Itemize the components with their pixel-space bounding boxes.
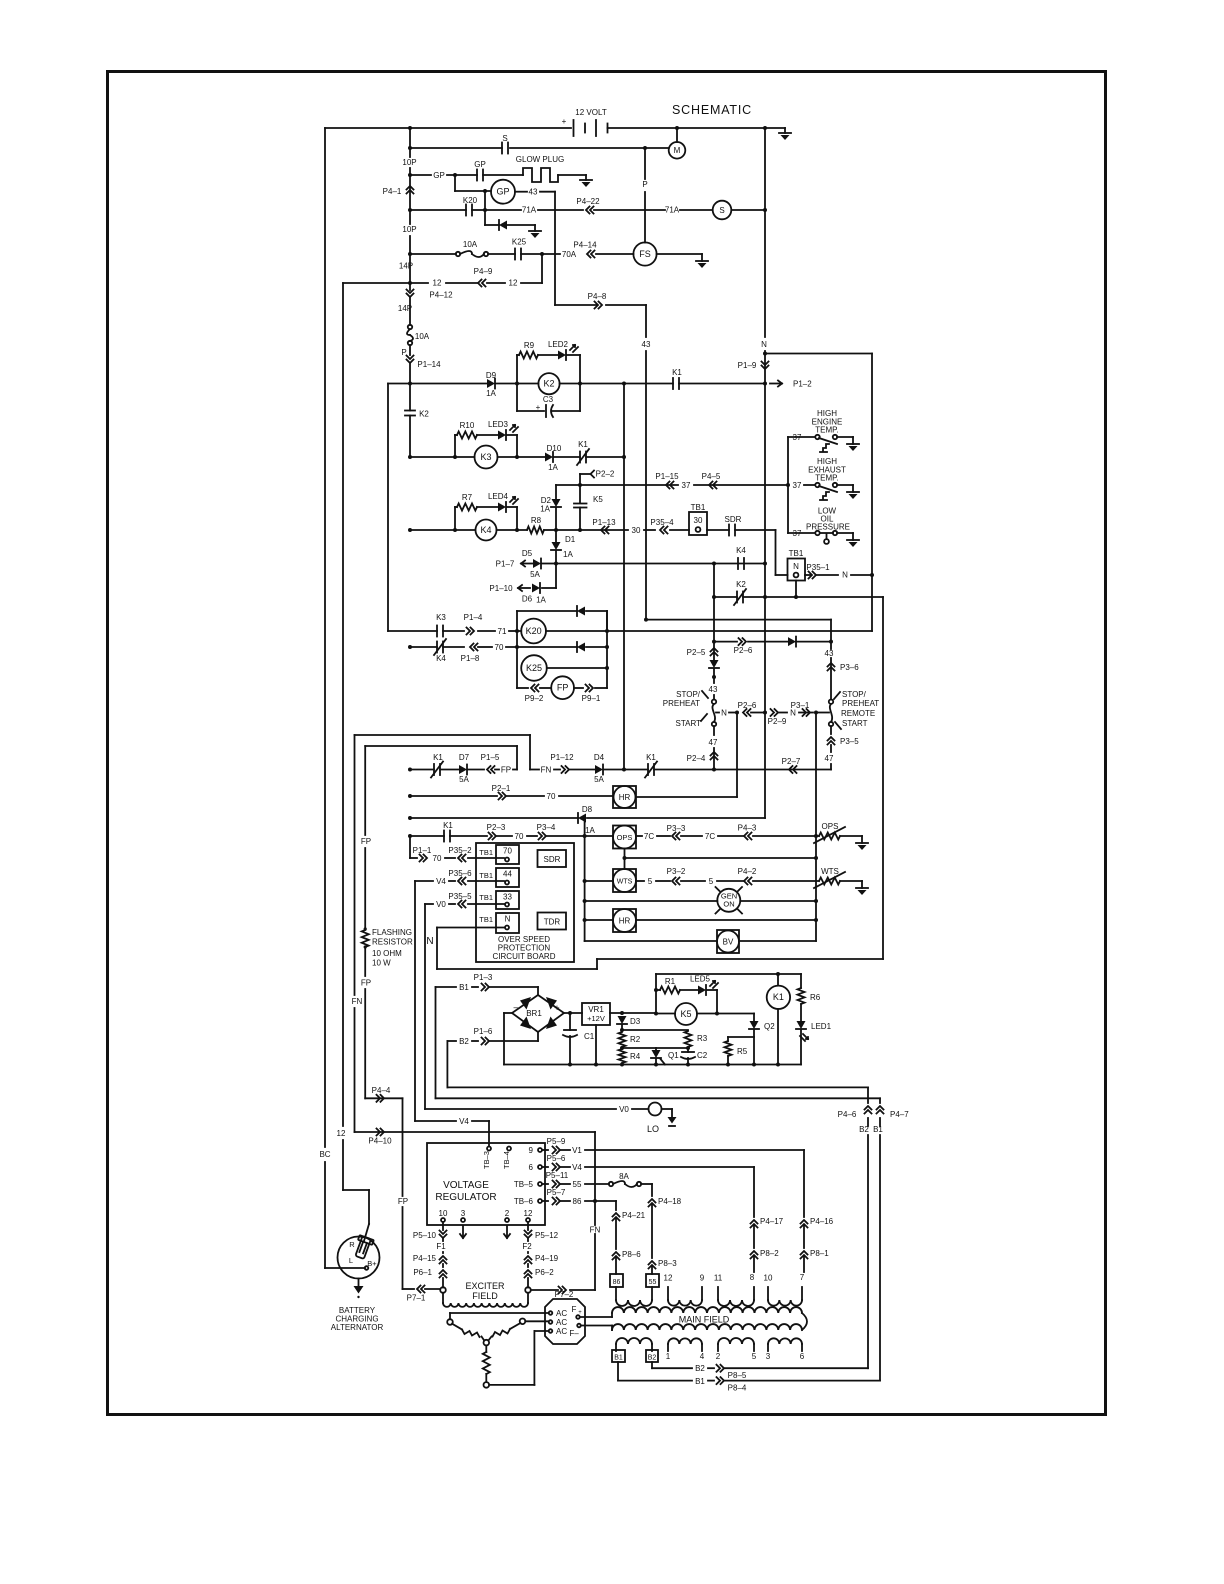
wire row70 d bbox=[506, 646, 577, 648]
svg-text:D6: D6 bbox=[522, 595, 533, 604]
svg-text:SCHEMATIC: SCHEMATIC bbox=[672, 103, 752, 117]
coil main bottom 1 bbox=[616, 1338, 652, 1344]
wire B1 long row bbox=[436, 1097, 881, 1099]
junction row485 k5 bbox=[578, 483, 582, 487]
wire K20 loop right bbox=[606, 611, 608, 631]
svg-text:P35–6: P35–6 bbox=[448, 869, 472, 878]
wire FP elbow bbox=[365, 1097, 402, 1099]
svg-text:FS: FS bbox=[639, 249, 651, 259]
svg-text:K4: K4 bbox=[436, 654, 446, 663]
rays LED4 bbox=[510, 497, 515, 502]
svg-text:+: + bbox=[554, 1003, 559, 1013]
svg-text:RESISTOR: RESISTOR bbox=[372, 938, 413, 947]
svg-text:10 OHM: 10 OHM bbox=[372, 949, 402, 958]
arrow P1-7 bbox=[521, 563, 533, 565]
wire N row2 c bbox=[779, 712, 787, 714]
tick stop right bbox=[834, 692, 840, 699]
lamp LO bbox=[649, 1103, 662, 1116]
svg-text:Q2: Q2 bbox=[764, 1022, 775, 1031]
svg-text:P4–21: P4–21 bbox=[622, 1211, 646, 1220]
svg-text:3: 3 bbox=[766, 1352, 771, 1361]
svg-text:P4–3: P4–3 bbox=[738, 824, 757, 833]
arrow P1-3 bbox=[482, 984, 490, 991]
diode D1 bbox=[552, 542, 561, 550]
wire row959 bbox=[597, 958, 883, 960]
arrow P7-1 bbox=[417, 1286, 425, 1293]
svg-text:2: 2 bbox=[716, 1352, 721, 1361]
svg-text:5A: 5A bbox=[459, 775, 469, 784]
junction C2 bot bbox=[686, 1063, 690, 1067]
relay K3 bbox=[475, 446, 498, 469]
wire row901 b bbox=[740, 900, 816, 902]
svg-text:P6–2: P6–2 bbox=[535, 1268, 554, 1277]
chevrons P8-6 bbox=[613, 1252, 620, 1260]
wire FN rail bbox=[354, 735, 356, 995]
svg-text:TB1: TB1 bbox=[691, 503, 706, 512]
wire D2 vert bbox=[555, 485, 557, 499]
wire 12 row bbox=[343, 282, 428, 284]
svg-text:P1–1: P1–1 bbox=[413, 846, 432, 855]
wire main top stub R3 bbox=[753, 1287, 755, 1300]
svg-text:N: N bbox=[793, 562, 799, 571]
wire P4-10 row bbox=[355, 1131, 596, 1133]
svg-text:K2: K2 bbox=[736, 580, 746, 589]
wire x714 vert c bbox=[713, 695, 715, 700]
svg-text:P4–6: P4–6 bbox=[838, 1110, 857, 1119]
wire V4 row b bbox=[472, 1120, 489, 1122]
svg-text:9: 9 bbox=[529, 1146, 534, 1155]
chevrons P4-6 bbox=[865, 1106, 872, 1114]
svg-text:70: 70 bbox=[503, 847, 512, 856]
wire row769 fp a bbox=[410, 769, 434, 771]
svg-text:+: + bbox=[562, 117, 567, 126]
wire bus seg2 bbox=[409, 168, 411, 210]
wire BC to Bplus bbox=[325, 1267, 365, 1269]
wire D1 vert b bbox=[555, 551, 557, 564]
svg-text:P5–6: P5–6 bbox=[547, 1154, 566, 1163]
wire row485 a bbox=[556, 484, 580, 486]
wire row641 a bbox=[714, 641, 737, 643]
wire 55 row c bbox=[585, 1183, 609, 1185]
ground glow plug bbox=[585, 175, 587, 180]
junction K3 loop left bbox=[453, 455, 457, 459]
wire 43 vertical upper bbox=[554, 192, 556, 305]
wire row901 a bbox=[585, 900, 718, 902]
arrow P1-5 bbox=[487, 766, 495, 773]
tick start right bbox=[835, 722, 841, 729]
arrow P9-2 bbox=[531, 685, 539, 692]
wire V1 row b bbox=[561, 1149, 570, 1151]
wire P2-2 stub bbox=[580, 473, 590, 475]
arrow P2-2 bbox=[591, 471, 595, 478]
junction right rail top bbox=[763, 126, 767, 130]
winding delta mid bbox=[485, 1345, 487, 1352]
junction bus top bbox=[408, 126, 412, 130]
wire row71 b bbox=[443, 630, 464, 632]
svg-text:4: 4 bbox=[700, 1352, 705, 1361]
svg-text:5A: 5A bbox=[594, 775, 604, 784]
junction row597 stub bbox=[794, 595, 798, 599]
svg-text:V0: V0 bbox=[619, 1105, 629, 1114]
svg-text:STOP/: STOP/ bbox=[842, 690, 867, 699]
wire P vertical b bbox=[644, 192, 646, 243]
chevrons P5-11 bbox=[553, 1181, 561, 1188]
wire F1 b bbox=[442, 1252, 444, 1253]
contact K4 row647 bbox=[436, 642, 438, 653]
wire V1 rail bbox=[803, 1150, 805, 1217]
arrow P35-4 bbox=[660, 527, 668, 534]
svg-text:R8: R8 bbox=[531, 516, 542, 525]
pin delta L bbox=[447, 1319, 453, 1325]
svg-text:P4–4: P4–4 bbox=[372, 1086, 391, 1095]
capacitor C3 bbox=[545, 405, 547, 417]
coil main bottom 3 bbox=[718, 1338, 754, 1344]
chevrons P5-7 bbox=[553, 1198, 561, 1205]
wire battery row left bbox=[325, 127, 571, 129]
wire B2 row c bbox=[490, 1040, 538, 1042]
wire main bot stub R3 bbox=[753, 1344, 755, 1351]
svg-text:–: – bbox=[513, 1002, 518, 1012]
relay K1 circle bbox=[767, 986, 790, 1009]
junction row384 bus bbox=[408, 382, 412, 386]
resistor R4 bbox=[619, 1049, 626, 1063]
diode LED1 bbox=[797, 1021, 806, 1029]
wire FN drop bbox=[529, 735, 531, 770]
svg-text:SDR: SDR bbox=[725, 515, 742, 524]
wire row769 fp b bbox=[440, 769, 459, 771]
junction row920 left bbox=[583, 918, 587, 922]
wire K3 loop left vert bbox=[454, 435, 456, 457]
junction row836 d8 bbox=[583, 834, 587, 838]
chevrons P2-5 bbox=[711, 648, 718, 656]
junction rail1064 c1 bbox=[568, 1063, 572, 1067]
wire row384 e bbox=[679, 383, 765, 385]
arrow P8-5 bbox=[717, 1365, 725, 1372]
wire 70A row a bbox=[410, 253, 456, 255]
pin TB-3 bbox=[487, 1147, 491, 1151]
junction LED5 drop bbox=[715, 1012, 719, 1016]
svg-text:P9–1: P9–1 bbox=[582, 694, 601, 703]
wire R6 top bbox=[800, 974, 802, 988]
junction S row bbox=[408, 146, 412, 150]
wire K4 loop left vert bbox=[454, 507, 456, 530]
svg-text:P8–4: P8–4 bbox=[728, 1384, 747, 1393]
wire main top stub L3 bbox=[717, 1287, 719, 1300]
svg-text:P4–2: P4–2 bbox=[738, 867, 757, 876]
wire B2 long row bbox=[447, 1086, 868, 1088]
svg-text:TB1: TB1 bbox=[479, 871, 493, 880]
svg-text:P1–9: P1–9 bbox=[738, 361, 757, 370]
arrow P2-9 chev bbox=[771, 709, 779, 716]
svg-text:10 W: 10 W bbox=[372, 959, 391, 968]
svg-text:TB1: TB1 bbox=[789, 549, 804, 558]
arrow P1-8 bbox=[470, 644, 478, 651]
svg-text:P2–1: P2–1 bbox=[492, 784, 511, 793]
indicator WTS bbox=[613, 869, 636, 892]
svg-text:55: 55 bbox=[573, 1180, 582, 1189]
wire bus seg7 bbox=[409, 384, 411, 411]
wire R5 stem bbox=[727, 1037, 729, 1041]
arrow P35-6 bbox=[458, 878, 466, 885]
wire 12 row d bbox=[521, 282, 542, 284]
svg-text:C2: C2 bbox=[697, 1051, 708, 1060]
switch LOW OIL PRESSURE bbox=[815, 531, 819, 535]
svg-text:K1: K1 bbox=[433, 753, 443, 762]
svg-text:D5: D5 bbox=[522, 549, 533, 558]
wire row384 b bbox=[496, 383, 538, 385]
svg-text:K2: K2 bbox=[419, 410, 429, 419]
wire main bot stub R1 bbox=[651, 1344, 653, 1351]
wire K20 loop top bbox=[517, 610, 577, 612]
wire row969 bbox=[437, 968, 597, 970]
wire 70A row c bbox=[521, 253, 542, 255]
chevrons P4-19 bbox=[525, 1256, 532, 1264]
wire bridge left drop bbox=[503, 1013, 505, 1065]
wire row836 d bbox=[527, 835, 537, 837]
svg-text:10A: 10A bbox=[415, 332, 430, 341]
wire row71 e bbox=[546, 630, 872, 632]
svg-text:ON: ON bbox=[723, 900, 734, 909]
svg-text:12: 12 bbox=[524, 1209, 533, 1218]
pin 6 bbox=[538, 1165, 542, 1169]
svg-text:K25: K25 bbox=[526, 663, 542, 673]
diode D2 bbox=[552, 499, 561, 507]
wire K4 row a bbox=[410, 529, 475, 531]
svg-text:1A: 1A bbox=[585, 826, 595, 835]
svg-text:P1–4: P1–4 bbox=[464, 613, 483, 622]
svg-text:FN: FN bbox=[352, 997, 363, 1006]
chevrons P8-1 bbox=[801, 1251, 808, 1259]
junction N x765 bbox=[763, 711, 767, 715]
terminal TB1-NN box bbox=[496, 913, 519, 933]
chevrons P4-7 bbox=[877, 1106, 884, 1114]
svg-text:P1–14: P1–14 bbox=[417, 360, 441, 369]
wire bus seg5 bbox=[409, 283, 411, 290]
arrow P2-6 left bbox=[739, 638, 747, 645]
junction 12 bus bbox=[408, 281, 412, 285]
svg-text:P1–2: P1–2 bbox=[793, 380, 812, 389]
junction K4 loop left bbox=[453, 528, 457, 532]
svg-text:F2: F2 bbox=[522, 1242, 532, 1251]
svg-text:6: 6 bbox=[800, 1352, 805, 1361]
chevrons P8-2 bbox=[751, 1251, 758, 1259]
wire N rail board bbox=[436, 928, 438, 970]
svg-text:B1: B1 bbox=[695, 1377, 705, 1386]
wire row70 b bbox=[443, 646, 464, 648]
svg-text:TEMP.: TEMP. bbox=[815, 426, 838, 435]
pin 9 bbox=[538, 1148, 542, 1152]
svg-text:47: 47 bbox=[825, 754, 834, 763]
svg-text:P4–15: P4–15 bbox=[413, 1254, 437, 1263]
svg-text:LED3: LED3 bbox=[488, 420, 509, 429]
wire F1 d bbox=[442, 1278, 444, 1288]
wire sw1 a bbox=[788, 436, 814, 438]
tick start left bbox=[701, 714, 707, 721]
wire right rail b bbox=[764, 351, 766, 384]
wire row530 i bbox=[735, 529, 776, 531]
svg-text:FP: FP bbox=[398, 1197, 408, 1206]
svg-text:10P: 10P bbox=[402, 225, 416, 234]
svg-text:P4–9: P4–9 bbox=[474, 267, 493, 276]
wire row620 bbox=[646, 619, 831, 621]
arrow P1-15 bbox=[666, 482, 674, 489]
wire delta B out bbox=[489, 1384, 534, 1386]
svg-text:D10: D10 bbox=[547, 444, 562, 453]
pin delta C bbox=[484, 1340, 490, 1346]
lamp GEN ON bbox=[717, 889, 740, 912]
wire F1 a bbox=[442, 1238, 444, 1241]
diode row641 bbox=[788, 637, 796, 646]
wire V4p row c bbox=[585, 1166, 754, 1168]
svg-text:8A: 8A bbox=[619, 1172, 629, 1181]
svg-text:8: 8 bbox=[750, 1273, 755, 1282]
pin 12 bbox=[526, 1218, 530, 1222]
wire row769 fn d bbox=[604, 769, 648, 771]
indicator HR bbox=[613, 786, 636, 808]
pressure mark sw3 bbox=[826, 534, 828, 539]
terminal TB1-N box bbox=[788, 559, 806, 581]
wire K1c stem bbox=[777, 974, 779, 986]
wire K4 row c bbox=[544, 529, 556, 531]
wire glowplug to gnd bbox=[558, 174, 586, 176]
resistor flashing bbox=[362, 930, 369, 947]
wire K4 row b bbox=[497, 529, 528, 531]
wire bus seg8 bbox=[409, 836, 411, 858]
junction K5 left bbox=[654, 1012, 658, 1016]
svg-text:71: 71 bbox=[498, 627, 507, 636]
svg-text:P4–8: P4–8 bbox=[588, 292, 607, 301]
wire VR1 stub bbox=[595, 1025, 597, 1065]
junction row563 x714 bbox=[712, 562, 716, 566]
wire BC rail bbox=[324, 128, 326, 1147]
contact K1 row769R bbox=[647, 764, 649, 775]
wire main bot stub R4 bbox=[801, 1344, 803, 1351]
wire 55 rail bbox=[651, 1184, 653, 1196]
junction K25 right bbox=[605, 645, 609, 649]
contact K25 bbox=[514, 249, 516, 260]
svg-text:86: 86 bbox=[573, 1197, 582, 1206]
winding delta left bbox=[452, 1324, 462, 1330]
wire row1048 bbox=[622, 1047, 688, 1049]
terminal 55 box bbox=[646, 1274, 659, 1287]
svg-text:HR: HR bbox=[619, 793, 631, 802]
svg-text:P8–6: P8–6 bbox=[622, 1250, 641, 1259]
svg-text:P2–4: P2–4 bbox=[687, 754, 706, 763]
svg-text:P3–1: P3–1 bbox=[791, 701, 810, 710]
svg-text:TB1: TB1 bbox=[479, 848, 493, 857]
wire P vertical a bbox=[644, 148, 646, 179]
wire P7-1 row bbox=[403, 1288, 415, 1290]
wire K5cap vert b bbox=[579, 508, 581, 531]
wire x831 vert d bbox=[830, 745, 832, 752]
svg-text:GP: GP bbox=[496, 187, 509, 197]
wire main bot stub R2 bbox=[701, 1344, 703, 1351]
wire row818 a bbox=[410, 817, 578, 819]
svg-text:P2–3: P2–3 bbox=[487, 823, 506, 832]
wire row904 a bbox=[425, 903, 433, 905]
svg-text:R2: R2 bbox=[630, 1035, 641, 1044]
svg-text:EXCITER: EXCITER bbox=[465, 1281, 505, 1291]
svg-text:K5: K5 bbox=[680, 1009, 691, 1019]
wire row769 fn c bbox=[570, 769, 595, 771]
wire wts right bbox=[636, 880, 644, 882]
wire ops bottom stub bbox=[624, 849, 626, 870]
resistor R2 bbox=[619, 1032, 626, 1047]
chevrons P4-16 bbox=[801, 1220, 808, 1228]
wire 71A row c bbox=[485, 209, 521, 211]
svg-text:P5–11: P5–11 bbox=[546, 1171, 569, 1180]
arrow P3-1 chev bbox=[803, 709, 811, 716]
svg-text:P1–15: P1–15 bbox=[655, 472, 679, 481]
junction GP branch bbox=[453, 173, 457, 177]
wire ops 7c bbox=[657, 835, 670, 837]
wire R1 row a bbox=[656, 989, 660, 991]
relay K2 bbox=[538, 373, 559, 394]
wire B2 bottom stub bbox=[651, 1362, 653, 1368]
ground sw2 bbox=[852, 485, 854, 492]
arrow P9-1 bbox=[586, 685, 594, 692]
wire D2 vert b bbox=[555, 508, 557, 530]
svg-text:VR1: VR1 bbox=[588, 1005, 604, 1014]
rays LED2 bbox=[570, 345, 575, 350]
wire GP drop bbox=[454, 175, 456, 191]
svg-text:P2–6: P2–6 bbox=[734, 646, 753, 655]
wire sw3 a bbox=[788, 532, 814, 534]
capacitor C2 bbox=[682, 1051, 694, 1053]
wire bus seg1 bbox=[409, 128, 411, 157]
svg-text:P4–1: P4–1 bbox=[383, 187, 402, 196]
wire ops res b bbox=[840, 835, 862, 837]
junction N row bbox=[763, 352, 767, 356]
coil main bottom 4 bbox=[768, 1338, 802, 1344]
diode LED4 bbox=[498, 503, 506, 512]
wire wts 5 bbox=[656, 880, 670, 882]
wire SDR drop bbox=[775, 530, 777, 575]
svg-text:1A: 1A bbox=[563, 550, 573, 559]
junction row901 left bbox=[583, 899, 587, 903]
svg-text:P8–2: P8–2 bbox=[760, 1249, 779, 1258]
wire 70A row b bbox=[488, 253, 515, 255]
svg-text:V4: V4 bbox=[572, 1163, 582, 1172]
junction P line top bbox=[643, 146, 647, 150]
svg-text:K5: K5 bbox=[593, 495, 603, 504]
wire 86 rail bbox=[615, 1201, 617, 1210]
svg-text:D7: D7 bbox=[459, 753, 470, 762]
junction P1-7 row bbox=[554, 562, 558, 566]
arrow P35-5 bbox=[458, 901, 466, 908]
wire 70A row d bbox=[542, 253, 560, 255]
wire x816 vert bbox=[815, 713, 817, 942]
svg-text:FP: FP bbox=[361, 837, 371, 846]
svg-text:D1: D1 bbox=[565, 535, 576, 544]
wire main top stub L2 bbox=[667, 1287, 669, 1300]
svg-text:10: 10 bbox=[439, 1209, 448, 1218]
junction C1 top bbox=[568, 1011, 572, 1015]
chevrons P1-9 bbox=[762, 362, 769, 370]
svg-text:LED5: LED5 bbox=[690, 975, 711, 984]
svg-text:K20: K20 bbox=[526, 626, 542, 636]
contact K4 row563 bbox=[737, 558, 739, 569]
wire sw2 a bbox=[804, 484, 814, 486]
diode CR K20 branch bbox=[485, 224, 499, 226]
svg-text:R: R bbox=[349, 1240, 355, 1249]
svg-text:P7–1: P7–1 bbox=[407, 1294, 426, 1303]
svg-text:P5–7: P5–7 bbox=[547, 1188, 566, 1197]
contact GP bbox=[476, 170, 478, 181]
svg-text:P2–5: P2–5 bbox=[687, 648, 706, 657]
svg-text:P4–14: P4–14 bbox=[573, 241, 597, 250]
diode LED5 bbox=[698, 986, 706, 995]
